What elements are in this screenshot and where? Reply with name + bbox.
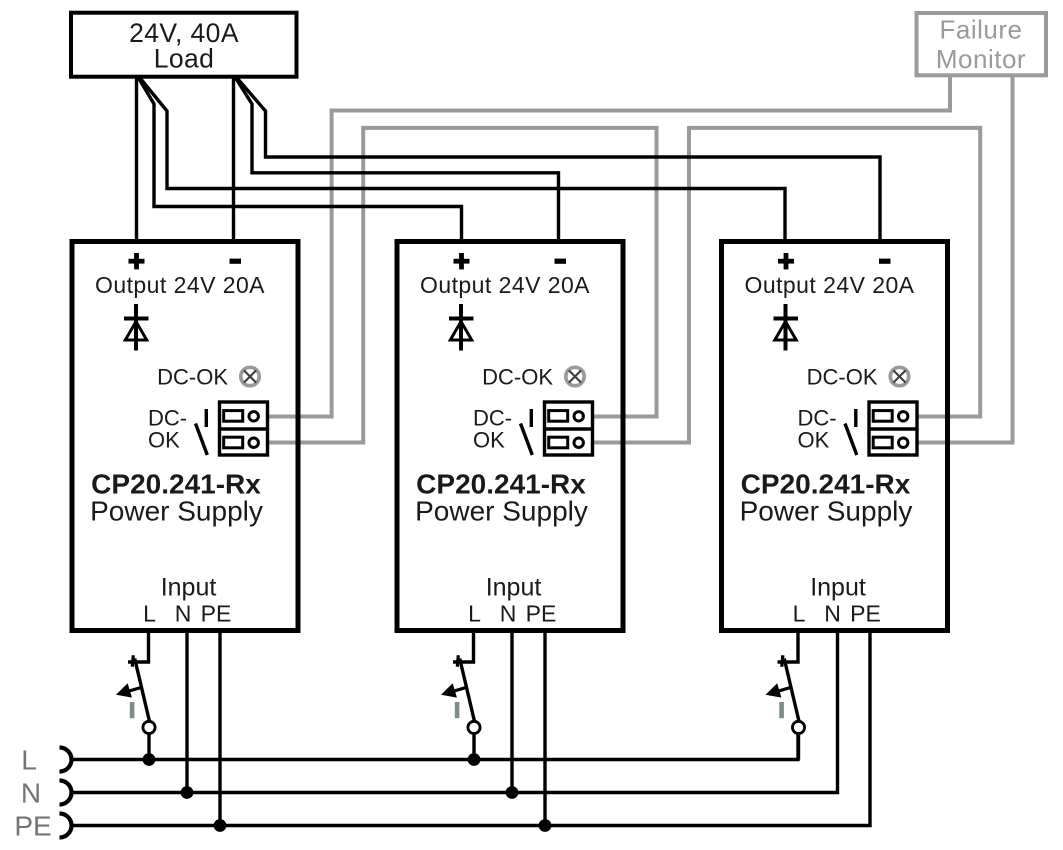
svg-text:Input: Input — [810, 574, 866, 602]
diode D2 lead — [459, 304, 463, 351]
breaker Q2 fixed contact tick — [457, 655, 458, 667]
svg-text:Power Supply: Power Supply — [740, 496, 913, 527]
diode D2 triangle — [450, 322, 471, 341]
PS2 + terminal label — [454, 259, 470, 264]
PS2 DC-OK switch blade — [521, 424, 533, 456]
svg-text:DC-OK: DC-OK — [157, 365, 228, 390]
PS3 - terminal label — [879, 259, 891, 264]
svg-text:N: N — [175, 601, 192, 627]
svg-text:L: L — [793, 601, 806, 627]
power supply PS2 box border — [397, 242, 623, 631]
PS1 + terminal label — [129, 259, 145, 264]
svg-text:PE: PE — [526, 601, 557, 627]
junction dot PE bus / PS1 — [214, 819, 227, 832]
svg-text:Power Supply: Power Supply — [90, 496, 263, 527]
wire: PS3 L pin down to breaker Q3 — [778, 632, 799, 662]
PS1 DC-OK switch blade — [196, 424, 208, 456]
breaker Q2 blade — [460, 659, 475, 721]
svg-text:Output 24V 20A: Output 24V 20A — [95, 272, 265, 298]
L bus line — [72, 734, 799, 760]
wire: PS1 L pin down to breaker Q1 — [128, 632, 149, 662]
breaker Q1 contact circle — [143, 721, 155, 733]
PS2 relay K2 lower terminal — [549, 437, 568, 448]
PS1 - terminal label — [230, 259, 242, 264]
svg-text:N: N — [500, 601, 517, 627]
svg-text:Output 24V 20A: Output 24V 20A — [745, 272, 915, 298]
diode D3 lead — [784, 304, 788, 351]
wire: PS2 DC-OK lower contact to PS3 DC-OK upper contact (gray) — [591, 128, 980, 443]
power supply PS3 box border — [722, 242, 948, 631]
wire: load + to PS1 + (vertical) — [135, 76, 138, 240]
wire: PS1 DC-OK lower contact to PS2 DC-OK upper contact (gray) — [266, 128, 657, 443]
wire: PS2 N pin to N bus — [510, 632, 513, 794]
wire: breaker Q3 to L bus — [797, 734, 800, 760]
svg-text:L: L — [143, 601, 156, 627]
wire: PS3 DC-OK lower contact up to failure monitor right pin (gray) — [916, 77, 1013, 443]
junction dot L bus / PS1 — [143, 753, 156, 766]
svg-text:N: N — [824, 601, 841, 627]
junction dot PE bus / PS2 — [539, 819, 552, 832]
diode D2 cathode bar — [449, 317, 474, 321]
svg-text:Power Supply: Power Supply — [415, 496, 588, 527]
breaker Q3 actuator arrow — [777, 687, 792, 691]
diode D1 triangle — [125, 322, 146, 341]
breaker Q3 label I — [779, 702, 784, 718]
breaker Q1 fixed contact tick — [132, 655, 133, 667]
breaker Q2 actuator arrow — [453, 687, 468, 691]
breaker Q2 label I — [455, 702, 460, 718]
PS1 relay K1 lower terminal — [224, 437, 243, 448]
svg-text:Load: Load — [154, 44, 215, 74]
wire: load - to PS2 - — [235, 77, 559, 240]
wire: PS1 PE pin to PE bus — [218, 632, 221, 827]
N bus entry arc — [60, 781, 72, 805]
wire: load - to PS3 - — [237, 78, 880, 240]
svg-text:L: L — [468, 601, 481, 627]
PS3 DC-OK switch blade — [845, 424, 857, 456]
breaker Q3 blade — [784, 659, 799, 721]
PS2 relay terminal block K2 — [545, 402, 593, 455]
PS3 relay K3 lower terminal — [873, 437, 892, 448]
wire: PS2 PE pin to PE bus — [543, 632, 546, 827]
breaker Q2 contact circle — [468, 721, 480, 733]
power supply PS2 box (CP20.241-Rx) — [397, 242, 623, 631]
wire: failure monitor left pin down and across to PS1 DC-OK contact (gray) — [266, 77, 950, 417]
power supply PS1 box border — [72, 242, 298, 631]
N bus line — [72, 632, 838, 793]
svg-text:L: L — [21, 745, 37, 776]
diode D3 cathode bar — [774, 317, 799, 321]
junction dot N bus / PS2 — [506, 786, 519, 799]
wire: PS2 L pin down to breaker Q2 — [453, 632, 474, 662]
breaker Q1 label I — [130, 702, 135, 718]
wire: breaker Q2 to L bus — [472, 734, 475, 762]
wire: PS1 N pin to N bus — [185, 632, 188, 794]
svg-text:PE: PE — [14, 811, 51, 842]
svg-text:OK: OK — [473, 428, 505, 453]
load box (24V, 40A Load) — [71, 13, 297, 77]
power supply PS1 box (CP20.241-Rx) — [72, 242, 298, 631]
svg-text:PE: PE — [201, 601, 232, 627]
svg-text:Input: Input — [161, 574, 217, 602]
junction dot N bus / PS1 — [181, 786, 194, 799]
PS3 relay K3 upper terminal — [873, 411, 892, 422]
PS3 DC-OK switch fixed contact — [854, 409, 857, 427]
PS2 - terminal label — [555, 259, 567, 264]
wire: load - to PS1 - (vertical) — [232, 76, 235, 240]
svg-text:DC-OK: DC-OK — [807, 365, 878, 390]
svg-text:Monitor: Monitor — [936, 44, 1026, 74]
wire: breaker Q1 to L bus — [147, 734, 150, 762]
breaker Q3 fixed contact tick — [782, 655, 783, 667]
PS2 relay K2 upper terminal — [549, 411, 568, 422]
diode D1 lead — [134, 304, 138, 351]
svg-text:Input: Input — [486, 574, 542, 602]
breaker Q1 blade — [135, 659, 150, 721]
wire: load + to PS3 + — [140, 78, 785, 240]
PS1 DC-OK switch fixed contact — [205, 409, 208, 427]
PS3 + terminal label — [778, 259, 794, 264]
svg-text:OK: OK — [148, 428, 180, 453]
svg-text:PE: PE — [850, 601, 881, 627]
PE bus entry arc — [60, 814, 72, 838]
svg-text:DC-OK: DC-OK — [482, 365, 553, 390]
PS2 DC-OK switch fixed contact — [530, 409, 533, 427]
wire: load + to PS2 + — [138, 77, 462, 240]
svg-text:OK: OK — [798, 428, 830, 453]
L bus entry arc — [60, 748, 72, 772]
breaker Q1 actuator arrow — [128, 687, 143, 691]
PS3 DC-OK LED symbol — [890, 367, 908, 385]
PE bus line — [72, 632, 871, 826]
failure monitor box — [917, 13, 1047, 75]
PS1 relay K1 upper terminal — [224, 411, 243, 422]
PS1 DC-OK LED symbol — [241, 367, 259, 385]
diode D1 cathode bar — [124, 317, 149, 321]
power supply PS3 box (CP20.241-Rx) — [722, 242, 948, 631]
PS1 relay terminal block K1 — [220, 402, 268, 455]
junction dot L bus / PS2 — [468, 753, 481, 766]
PS3 relay terminal block K3 — [869, 402, 917, 455]
svg-text:Output 24V 20A: Output 24V 20A — [420, 272, 590, 298]
PS2 DC-OK LED symbol — [566, 367, 584, 385]
svg-text:Failure: Failure — [940, 15, 1023, 45]
diode D3 triangle — [775, 322, 796, 341]
breaker Q3 contact circle — [792, 721, 804, 733]
svg-text:N: N — [21, 778, 41, 809]
